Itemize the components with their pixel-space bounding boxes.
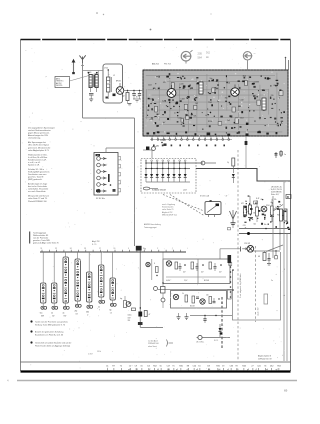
- car aerial connector arrows: [72, 59, 76, 74]
- svg-text:C9: C9: [135, 366, 137, 368]
- scan artifact grey rule below sheet: [17, 380, 297, 382]
- svg-text:S2 KL 30a: S2 KL 30a: [96, 198, 106, 200]
- trimmer pot P32 under switch: [51, 303, 58, 317]
- label 205 564 beside arrow: [198, 52, 211, 60]
- push-button switch S35 (U2): [87, 252, 92, 302]
- svg-text:T5: T5: [172, 366, 174, 368]
- svg-text:12: 12: [129, 366, 131, 368]
- preamp small parts row: [166, 262, 226, 282]
- svg-text:e5: e5: [237, 369, 239, 371]
- wire IF lower rails: [239, 229, 291, 234]
- svg-text:Aenderungen im Zuge: Aenderungen im Zuge: [28, 183, 47, 186]
- svg-text:sind mit Roehrenvoltmeter: sind mit Roehrenvoltmeter: [28, 129, 51, 132]
- svg-text:1n: 1n: [98, 307, 100, 309]
- svg-text:R134: R134: [208, 121, 212, 123]
- svg-text:C33: C33: [230, 366, 233, 368]
- svg-text:ab 47: ab 47: [183, 190, 187, 192]
- driver small parts: [182, 293, 223, 308]
- label AM/FM umschalt: [144, 223, 161, 229]
- wire aerial screen to switch bus (L-run): [83, 117, 135, 119]
- svg-text:22k: 22k: [274, 208, 277, 210]
- svg-text:Stellung: Taste MW gedrueckt: Stellung: Taste MW gedrueckt S. 70: [35, 323, 65, 326]
- svg-text:ohne Verst.: ohne Verst.: [148, 345, 158, 348]
- svg-text:205: 205: [198, 52, 203, 56]
- svg-text:1: 1: [284, 269, 285, 271]
- svg-text:gesehen, Taste MW: gesehen, Taste MW: [33, 239, 50, 242]
- svg-text:FM 753: FM 753: [164, 64, 172, 66]
- svg-text:220: 220: [206, 295, 209, 297]
- svg-text:C121: C121: [255, 81, 259, 83]
- svg-text:19: 19: [222, 366, 224, 368]
- svg-text:5: 5: [128, 248, 129, 250]
- svg-text:3114: 3114: [242, 75, 246, 77]
- svg-text:d: d: [158, 146, 159, 148]
- svg-text:19: 19: [114, 248, 116, 250]
- brace note (bottom centre): [148, 340, 173, 348]
- svg-text:10n: 10n: [247, 211, 250, 213]
- svg-text:22RN442 /00: 22RN442 /00: [148, 343, 159, 345]
- svg-text:Stationstasten: Stationstasten: [162, 206, 173, 209]
- tuner module U101 AM/FM front-end (shaded block): [143, 70, 288, 136]
- svg-text:Tasten von der Frontseite aus: Tasten von der Frontseite aus gesehen,: [35, 321, 69, 324]
- dashed mechanical coupling to matrix: [163, 195, 204, 216]
- rotated cable label along second divider: [257, 308, 260, 316]
- svg-text:Abgleichplatte B: Abgleichplatte B: [258, 355, 272, 358]
- tuner module bottom edge components: [147, 131, 278, 136]
- matrix bus wire (upper): [146, 162, 203, 164]
- svg-text:TRIM 87.5: TRIM 87.5: [56, 81, 64, 83]
- svg-text:S103: S103: [240, 117, 244, 119]
- svg-text:69: 69: [284, 389, 288, 393]
- svg-text:C 817: C 817: [88, 354, 93, 356]
- svg-text:Alle Spannungen bei: Alle Spannungen bei: [28, 141, 46, 144]
- lamp dropper components: [258, 250, 277, 265]
- svg-text:w4: w4: [208, 369, 210, 371]
- svg-text:des techn. Fortschritts: des techn. Fortschritts: [28, 185, 47, 188]
- wire bus lower taps: [136, 246, 163, 328]
- svg-text:564: 564: [198, 56, 203, 60]
- svg-text:74: 74: [264, 366, 266, 368]
- matrix bus wire (lower): [145, 168, 190, 170]
- svg-text:BF194: BF194: [116, 81, 121, 83]
- svg-text:8x BA182 1N4148: 8x BA182 1N4148: [152, 189, 166, 192]
- wire AF line vertical: [272, 196, 274, 258]
- svg-text:Abweichungen bis 20%: Abweichungen bis 20%: [28, 134, 48, 137]
- svg-text:562: 562: [206, 52, 211, 55]
- output socket circle: [197, 335, 231, 339]
- svg-text:2k2: 2k2: [122, 96, 125, 98]
- svg-text:R20: R20: [179, 366, 182, 368]
- push-button switch S33 (K): [63, 252, 68, 303]
- parts below tuner block (right): [158, 136, 247, 169]
- svg-text:L2: L2: [113, 75, 115, 77]
- connector text under socket: [196, 340, 218, 344]
- push-button switch S34 (U1): [75, 252, 80, 301]
- svg-text:vorbehalten. Ersatzteile: vorbehalten. Ersatzteile: [28, 188, 48, 191]
- svg-text:39p: 39p: [225, 98, 228, 100]
- electrolytic C301 on bus: [128, 312, 143, 323]
- ferrite bead on rail: [247, 228, 281, 235]
- tuner internal wiring grid (illegible in scan): [145, 73, 282, 133]
- svg-text:10n: 10n: [210, 78, 213, 80]
- matrix value labels: [152, 189, 187, 192]
- diode D310 to heavy dashed line: [219, 324, 223, 337]
- variable capacitor C250 (tuning gang): [228, 210, 237, 230]
- wire lamp supply: [220, 249, 280, 259]
- svg-text:C41: C41: [243, 225, 246, 227]
- svg-text:4x: 4x: [63, 313, 65, 315]
- svg-text:318: 318: [128, 320, 131, 322]
- svg-text:22RN442 /00 /19: 22RN442 /00 /19: [258, 358, 272, 360]
- svg-text:siehe Seite 70: siehe Seite 70: [162, 208, 173, 211]
- wire main vertical bus to keyboard section: [134, 118, 136, 246]
- component location index strip: [106, 366, 281, 371]
- label under contact box: [96, 198, 106, 200]
- tuner module pin row (below block): [150, 136, 232, 140]
- wire lower rail to right: [190, 315, 232, 316]
- svg-text:8p: 8p: [110, 310, 112, 312]
- svg-text:Ansicht der gedruckten Schaltu: Ansicht der gedruckten Schaltung: [35, 331, 63, 334]
- ground symbols under preamp: [177, 313, 189, 320]
- svg-text:D4: D4: [147, 366, 149, 368]
- AF preamp enclosure (upper box): [163, 259, 230, 284]
- svg-text:log: log: [120, 298, 122, 300]
- push-button switch S32 (M): [52, 252, 57, 303]
- wire aerial lead into screened unit: [83, 71, 104, 75]
- svg-text:1k: 1k: [182, 293, 184, 295]
- trimmer pot P33 under switch: [63, 303, 70, 317]
- screened coil unit L101 (rounded can): [103, 64, 123, 103]
- svg-text:KW: KW: [64, 315, 67, 317]
- svg-text:3114: 3114: [266, 205, 270, 207]
- svg-text:100u: 100u: [128, 315, 132, 317]
- svg-text:siehe Abgleichplan S.71.: siehe Abgleichplan S.71.: [28, 149, 50, 152]
- svg-text:D: D: [287, 195, 289, 199]
- small parts right column: [228, 255, 286, 304]
- svg-text:22k: 22k: [274, 199, 277, 201]
- svg-text:z3: z3: [227, 369, 229, 371]
- svg-text:a4: a4: [128, 369, 130, 371]
- ground rail below RC network: [128, 99, 142, 105]
- svg-text:1722: 1722: [104, 68, 108, 70]
- svg-text:Platte B oder direkt am Aggreg: Platte B oder direkt am Aggregat befesti…: [35, 344, 70, 347]
- svg-text:Wellenschalter S3: Wellenschalter S3: [33, 234, 48, 237]
- boxed label D6: [286, 195, 291, 199]
- transistor T206 circle: [154, 287, 158, 291]
- svg-text:Abgl. 252: Abgl. 252: [92, 240, 100, 243]
- svg-text:C41: C41: [257, 366, 260, 368]
- svg-text:2x: 2x: [271, 280, 273, 282]
- station preset diode matrix (dashed enclosure): [141, 159, 196, 194]
- svg-text:0,5: 0,5: [40, 313, 42, 315]
- tuner coil L106 (screened): [199, 82, 203, 94]
- schematic sheet border (bottom heavy rule): [21, 370, 291, 372]
- diagonal wire to lamp rail: [266, 245, 283, 252]
- push-button switch S37 (T): [110, 252, 115, 300]
- label FM beside arrow: [254, 52, 256, 56]
- faint scan noise speckle (non-component): [22, 41, 288, 369]
- svg-text:1k: 1k: [51, 313, 53, 315]
- svg-text:R52: R52: [277, 214, 280, 216]
- svg-text:m9: m9: [168, 369, 171, 371]
- svg-text:Ratio 10,7: Ratio 10,7: [271, 193, 279, 196]
- tuner internal screened coil cans (white bodies): [145, 71, 283, 133]
- svg-text:68p: 68p: [274, 85, 277, 87]
- svg-text:D8: D8: [207, 366, 209, 368]
- svg-text:f2: f2: [137, 369, 139, 371]
- push-button switch S31 (L): [41, 252, 46, 303]
- svg-text:Schalter S1...S6 in: Schalter S1...S6 in: [28, 168, 44, 171]
- extra IF cluster parts: [243, 196, 290, 231]
- svg-text:S 41: S 41: [256, 198, 259, 200]
- service notes text block (left margin): [28, 128, 55, 203]
- svg-text:C115: C115: [180, 84, 184, 86]
- transistor T201 in preamp: [166, 261, 171, 266]
- resistor R151: [122, 91, 129, 104]
- rotated cable label along divider: [239, 274, 242, 299]
- preamp inner partition and supply rail: [158, 259, 232, 290]
- svg-text:KL 15: KL 15: [214, 340, 218, 342]
- svg-text:D12: D12: [270, 366, 273, 368]
- svg-text:sind zulaessig.: sind zulaessig.: [28, 138, 41, 140]
- power supply enclosure (right): [233, 252, 281, 320]
- svg-text:1k2: 1k2: [195, 103, 198, 105]
- svg-text:88: 88: [187, 366, 189, 368]
- svg-text:R31: R31: [216, 366, 219, 368]
- keyboard bank footnote: [30, 320, 68, 326]
- leader line from note box to input transformer: [70, 74, 97, 82]
- svg-text:Tastenaggregat: Tastenaggregat: [33, 232, 47, 235]
- svg-text:318 b: 318 b: [97, 351, 101, 353]
- trimmer pot P31 under switch: [40, 303, 47, 317]
- trimmer pot P34 under switch: [75, 301, 82, 315]
- svg-text:ʺʺ: ʺʺ: [254, 52, 256, 56]
- svg-text:S. 70: S. 70: [92, 244, 96, 246]
- transistor T103 (tuner mixer/osc): [231, 85, 239, 97]
- svg-text:4k7: 4k7: [201, 272, 204, 274]
- svg-text:C108: C108: [180, 98, 184, 100]
- matrix diodes D201-D208: [145, 160, 187, 182]
- capacitor C152: [132, 91, 138, 100]
- svg-text:4k7: 4k7: [183, 272, 186, 274]
- left feed components to boxes: [161, 253, 166, 309]
- aerial down-lead wire: [82, 63, 84, 118]
- svg-text:Tastenaggregat: Tastenaggregat: [144, 226, 157, 229]
- wafer switch unit S2 (contact box): [94, 153, 121, 196]
- keyboard common rail: [40, 248, 186, 252]
- svg-text:1n5: 1n5: [227, 120, 230, 122]
- svg-text:n6: n6: [266, 369, 268, 371]
- transistor T151 input stage: [116, 81, 124, 95]
- svg-text:s2: s2: [187, 369, 189, 371]
- header labels above keyboard bank: [30, 232, 100, 246]
- svg-text:2k2: 2k2: [75, 311, 78, 313]
- transistor T101 (tuner RF amp): [167, 85, 176, 97]
- svg-text:R7: R7: [112, 366, 114, 368]
- svg-text:h7: h7: [149, 369, 151, 371]
- svg-text:nur nach Stueckliste.: nur nach Stueckliste.: [28, 190, 46, 193]
- svg-text:2: 2: [157, 248, 158, 250]
- svg-text:LW: LW: [52, 315, 55, 317]
- right footer text: [258, 355, 272, 361]
- svg-text:Bauteilseite von Platte A, sie: Bauteilseite von Platte A, sieh. 66: [35, 333, 63, 336]
- volume control pot P1: [120, 296, 136, 311]
- svg-text:Platte A 22RN442 /00: Platte A 22RN442 /00: [28, 200, 47, 203]
- svg-text:von der Frontseite: von der Frontseite: [33, 237, 48, 240]
- note box (aerial trimming note): [55, 77, 70, 88]
- trimmer pot P36 under switch: [98, 297, 105, 311]
- transistor T203 in driver: [200, 299, 205, 304]
- svg-text:BC158: BC158: [190, 306, 195, 308]
- supply rail verticals to edge connector: [284, 182, 287, 361]
- svg-text:31: 31: [140, 366, 142, 368]
- svg-text:4k7: 4k7: [219, 272, 222, 274]
- svg-text:T102: T102: [208, 102, 212, 104]
- svg-text:Gestrichelt umrandete Bauteile: Gestrichelt umrandete Bauteile sind auf …: [35, 342, 72, 345]
- pin row secondary marks: [153, 145, 225, 147]
- svg-text:L104: L104: [226, 83, 230, 85]
- trimmer pot P37 under switch: [110, 300, 117, 314]
- svg-text:M 12V 0,1A: M 12V 0,1A: [200, 195, 210, 198]
- wire matrix feed from tuner: [143, 150, 152, 159]
- svg-text:220: 220: [271, 95, 274, 97]
- page fold marks / specks in top margin: [96, 12, 211, 30]
- aerial symbol: [79, 55, 85, 65]
- svg-text:C41: C41: [253, 224, 256, 226]
- push-button switch S36 (U3): [99, 252, 104, 297]
- svg-text:C1: C1: [106, 366, 108, 368]
- right column contact dots: [229, 261, 232, 298]
- svg-text:T2: T2: [120, 366, 122, 368]
- trimmer pot P35 under switch: [86, 302, 93, 316]
- svg-text:12V 2W: 12V 2W: [244, 243, 250, 245]
- off-sheet arrow symbol (to AM aerial panel): [181, 50, 192, 63]
- capacitor group near right border: [275, 150, 286, 158]
- diode D210 with indicator: [146, 146, 158, 151]
- svg-text:R52: R52: [277, 366, 280, 368]
- svg-text:68: 68: [258, 256, 260, 258]
- svg-text:82k: 82k: [194, 116, 197, 118]
- svg-text:y6: y6: [219, 369, 221, 371]
- svg-text:T: T: [99, 309, 100, 311]
- svg-text:17: 17: [99, 248, 101, 250]
- capacitor C153: [138, 91, 141, 100]
- svg-text:k3: k3: [157, 369, 159, 371]
- svg-text:68: 68: [261, 199, 263, 201]
- svg-text:·· 47: ·· 47: [224, 196, 227, 198]
- tuner module dashed outline: [143, 70, 288, 136]
- svg-text:Spulen in uH.: Spulen in uH.: [28, 164, 40, 166]
- svg-text:AM/FM Umschaltung: AM/FM Umschaltung: [144, 223, 161, 226]
- wire IF output bus with step: [196, 169, 291, 182]
- svg-text:AM 252: AM 252: [152, 63, 160, 66]
- component index strip upper rule: [21, 361, 291, 363]
- svg-text:47: 47: [149, 314, 151, 316]
- wire contact box feed: [106, 148, 135, 153]
- wire from FM arrow down into tuner: [247, 63, 249, 71]
- label above tuner block: [152, 63, 172, 66]
- bottom note bullet 2: [30, 341, 71, 347]
- dashed section divider (x=255): [255, 246, 257, 322]
- dashed section divider (x=238): [237, 150, 239, 360]
- AF driver enclosure (lower box): [171, 291, 227, 309]
- tuner internal components (resistors, capacitors - illegible): [147, 73, 285, 134]
- svg-text:560: 560: [86, 312, 89, 314]
- matrix output rail: [146, 181, 190, 183]
- svg-text:Messpunkte und Kurven: Messpunkte und Kurven: [28, 195, 49, 198]
- label row above M-box: [200, 195, 227, 198]
- svg-text:5-25: 5-25: [162, 100, 165, 102]
- svg-text:LS 4 Ohm: LS 4 Ohm: [196, 342, 204, 344]
- tuning indicator unit (pointer box): [205, 200, 221, 217]
- svg-text:C24: C24: [193, 366, 196, 368]
- text block beside coupling: [162, 204, 177, 216]
- node circle (AFC line): [201, 161, 216, 165]
- svg-text:p5: p5: [176, 369, 178, 371]
- svg-text:2 adr abgesch. Ltg 9049 blau: 2 adr abgesch. Ltg 9049 blau: [239, 274, 242, 299]
- svg-text:2122: 2122: [148, 85, 152, 87]
- schematic sheet border (top edge): [21, 39, 291, 41]
- svg-text:472: 472: [241, 203, 244, 205]
- svg-text:q4: q4: [276, 369, 278, 371]
- svg-text:R118: R118: [149, 98, 153, 100]
- voltage table text (right): [271, 186, 283, 197]
- tuner top-right feedthrough pins: [285, 57, 289, 70]
- svg-text:nur bei Ausf.: nur bei Ausf.: [148, 340, 158, 343]
- resistor R209 (matrix): [143, 187, 158, 190]
- svg-text:R44: R44: [242, 366, 245, 368]
- transistor T202 in driver: [173, 294, 178, 299]
- svg-text:Drucktasten von vorn: Drucktasten von vorn: [28, 173, 46, 176]
- svg-text:55: 55: [160, 366, 162, 368]
- svg-text:Stellung AUS gezeichnet.: Stellung AUS gezeichnet.: [28, 170, 50, 173]
- svg-text:Ltg 4 x 0,8: Ltg 4 x 0,8: [257, 308, 260, 316]
- resistor chain at divider: [227, 158, 235, 183]
- svg-text:22: 22: [55, 248, 57, 250]
- heavy dashed divider (x=222): [221, 297, 223, 348]
- svg-text:1n: 1n: [284, 154, 286, 156]
- svg-text:4n7: 4n7: [136, 97, 139, 99]
- svg-text:19: 19: [143, 248, 145, 250]
- svg-text:siehe Seite 72 und 73.: siehe Seite 72 und 73.: [28, 197, 48, 200]
- dial lamp LP1: [241, 243, 254, 252]
- IF amplifier cluster components: [241, 196, 287, 224]
- svg-text:C17: C17: [167, 366, 170, 368]
- wire right edge drop: [290, 181, 292, 233]
- svg-text:11: 11: [41, 248, 43, 250]
- svg-text:R12: R12: [153, 366, 156, 368]
- svg-text:C132: C132: [240, 99, 244, 101]
- page number 69: [284, 389, 288, 393]
- svg-text:BC148: BC148: [204, 280, 209, 282]
- svg-text:u8: u8: [196, 369, 198, 371]
- svg-text:MW: MW: [41, 315, 44, 317]
- capacitor C102 under transformer: [89, 94, 94, 100]
- svg-text:10n: 10n: [264, 224, 267, 226]
- svg-text:MW-LW-UKW Tast: MW-LW-UKW Tast: [162, 213, 177, 216]
- text above bottom rule: [88, 351, 101, 355]
- bottom note bullet 1: [30, 330, 63, 336]
- svg-text:61: 61: [198, 366, 200, 368]
- svg-text:FM 8795: FM 8795: [56, 85, 62, 87]
- resistor R305: [140, 307, 151, 316]
- svg-text:gesehen, Taste M: gesehen, Taste M: [28, 176, 44, 179]
- sheet index mark 4: [7, 379, 9, 383]
- svg-text:▬: ▬: [206, 56, 209, 59]
- off-sheet arrow symbol (FM aerial): [243, 52, 252, 63]
- svg-text:24: 24: [70, 248, 72, 250]
- svg-text:b: b: [284, 295, 285, 297]
